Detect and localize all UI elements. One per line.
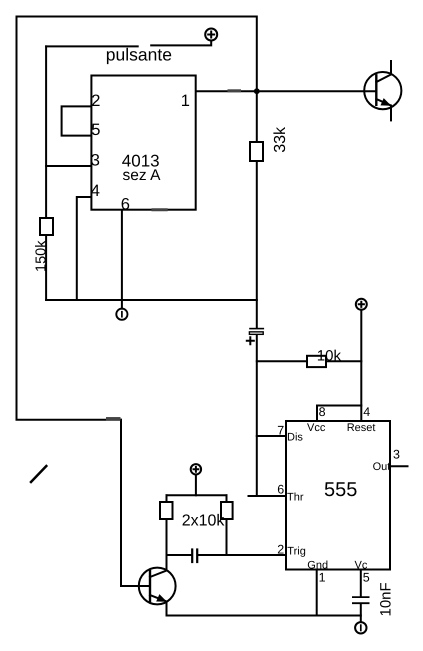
- svg-text:Vcc: Vcc: [307, 422, 326, 434]
- svg-text:5: 5: [91, 121, 100, 139]
- svg-text:Gnd: Gnd: [307, 560, 328, 572]
- svg-text:555: 555: [324, 479, 357, 501]
- svg-text:Thr: Thr: [287, 492, 304, 504]
- svg-text:2: 2: [277, 543, 284, 557]
- svg-text:6: 6: [277, 483, 284, 497]
- svg-text:2x10k: 2x10k: [182, 513, 226, 530]
- svg-text:Out: Out: [373, 461, 391, 473]
- svg-text:5: 5: [363, 570, 370, 584]
- svg-text:6: 6: [121, 195, 130, 213]
- svg-text:10nF: 10nF: [378, 582, 395, 616]
- svg-text:sez A: sez A: [123, 167, 162, 184]
- svg-text:pulsante: pulsante: [106, 45, 172, 65]
- svg-text:4: 4: [363, 405, 370, 419]
- svg-text:Trig: Trig: [287, 546, 306, 558]
- svg-text:7: 7: [277, 423, 284, 437]
- svg-text:Dis: Dis: [287, 432, 303, 444]
- svg-text:4: 4: [91, 182, 100, 200]
- svg-text:1: 1: [181, 92, 190, 110]
- svg-text:3: 3: [393, 447, 400, 461]
- svg-text:10k: 10k: [317, 347, 342, 364]
- svg-text:3: 3: [91, 152, 100, 170]
- svg-text:33k: 33k: [272, 126, 289, 153]
- svg-text:2: 2: [91, 92, 100, 110]
- svg-text:150k: 150k: [34, 240, 50, 272]
- svg-text:1: 1: [319, 570, 326, 584]
- svg-text:8: 8: [319, 405, 326, 419]
- svg-text:Vc: Vc: [355, 560, 368, 572]
- svg-text:Reset: Reset: [347, 422, 376, 434]
